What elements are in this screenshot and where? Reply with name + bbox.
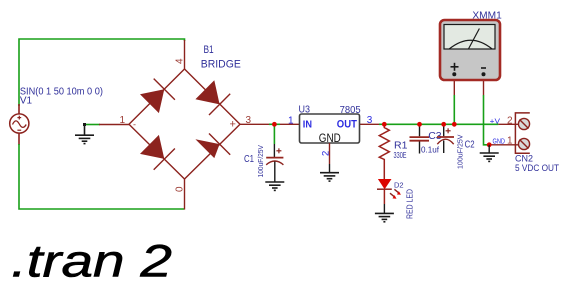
svg-text:+V: +V (490, 116, 500, 125)
svg-text:BRIDGE: BRIDGE (201, 59, 241, 71)
svg-text:1: 1 (288, 116, 294, 127)
svg-text:GND: GND (493, 136, 506, 145)
svg-text:XMM1: XMM1 (472, 11, 502, 22)
svg-text:5 VDC OUT: 5 VDC OUT (515, 163, 559, 174)
svg-text:V1: V1 (20, 96, 33, 107)
svg-text:C2: C2 (465, 138, 475, 150)
svg-text:1: 1 (120, 115, 126, 126)
svg-text:100uF/25V: 100uF/25V (256, 145, 265, 178)
svg-text:RED LED: RED LED (406, 189, 415, 219)
svg-text:1: 1 (507, 136, 513, 147)
svg-text:2: 2 (321, 151, 332, 156)
svg-text:-: - (133, 120, 136, 130)
svg-text:SIN(0 1 50 10m 0 0): SIN(0 1 50 10m 0 0) (20, 87, 103, 98)
svg-text:3: 3 (367, 115, 373, 126)
svg-text:.tran 2: .tran 2 (11, 235, 172, 286)
svg-text:0.1uf: 0.1uf (421, 144, 440, 154)
svg-text:D2: D2 (394, 180, 404, 189)
svg-text:C1: C1 (244, 154, 254, 165)
svg-text:U3: U3 (299, 105, 311, 116)
svg-text:100uF/25V: 100uF/25V (455, 135, 464, 170)
svg-text:B1: B1 (204, 44, 214, 56)
svg-text:7805: 7805 (340, 104, 361, 116)
svg-text:IN: IN (303, 119, 312, 131)
svg-text:OUT: OUT (337, 119, 357, 131)
svg-text:330E: 330E (394, 151, 407, 160)
svg-text:3: 3 (246, 115, 252, 126)
svg-text:C3: C3 (428, 130, 442, 142)
svg-text:R1: R1 (394, 139, 408, 151)
svg-text:2: 2 (507, 115, 513, 126)
svg-text:+: + (230, 119, 236, 131)
svg-text:0: 0 (175, 186, 186, 192)
svg-text:4: 4 (175, 58, 186, 64)
